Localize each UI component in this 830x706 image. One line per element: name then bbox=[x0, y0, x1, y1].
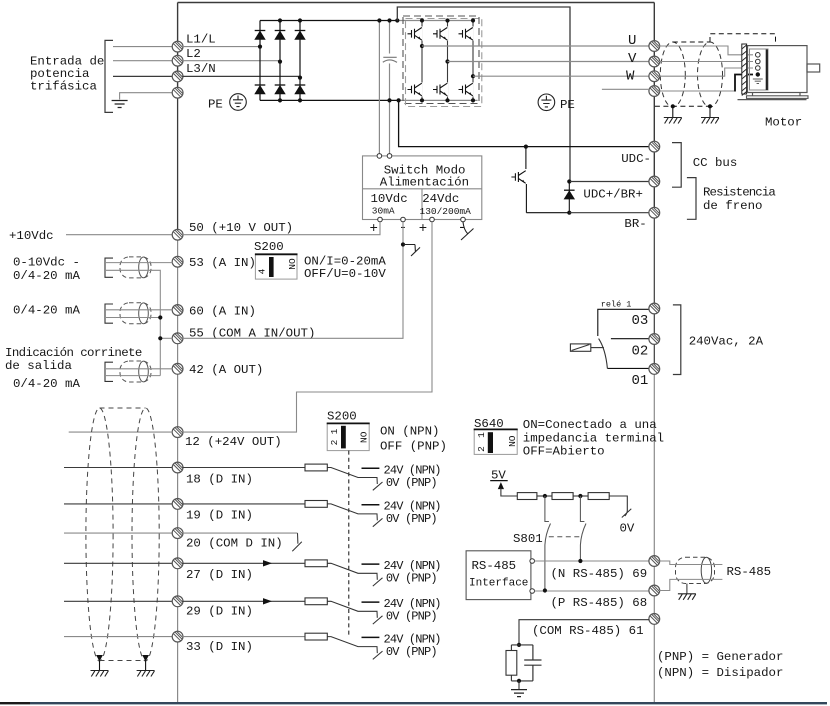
wire 55 common to bus bbox=[160, 337, 173, 339]
svg-text:0/4-20 mA: 0/4-20 mA bbox=[13, 269, 80, 283]
wire analog 60 signal bbox=[106, 309, 173, 311]
bottom window border bbox=[0, 702, 30, 704]
svg-text:(P RS-485) 68: (P RS-485) 68 bbox=[551, 596, 648, 610]
protective earth symbol output bbox=[538, 94, 555, 111]
pin 10Vdc minus bbox=[401, 217, 406, 222]
svg-text:S801: S801 bbox=[513, 532, 543, 546]
resistor termination R2 bbox=[552, 493, 573, 500]
svg-text:12 (+24V OUT): 12 (+24V OUT) bbox=[185, 435, 282, 449]
svg-text:+: + bbox=[419, 221, 427, 237]
svg-text:relé 1: relé 1 bbox=[601, 299, 632, 309]
wire DC+ bus top bbox=[260, 20, 397, 22]
node BR- junction bbox=[567, 211, 571, 215]
transistor inverter IGBT bottom 3 bbox=[461, 83, 474, 97]
svg-text:UDC-: UDC- bbox=[621, 152, 651, 166]
wire N RS-485 to 69 bbox=[535, 560, 650, 562]
node RC bottom bbox=[517, 679, 521, 683]
terminal 02 bbox=[649, 334, 660, 345]
svg-text:0V (PNP): 0V (PNP) bbox=[386, 645, 437, 659]
node inverter bottom junction 1 bbox=[420, 98, 424, 102]
wire relay NO 01 bbox=[607, 367, 649, 369]
resistor input 18 bbox=[305, 464, 327, 471]
node DC+ bus tap 1 bbox=[377, 18, 381, 22]
svg-text:01: 01 bbox=[632, 373, 649, 389]
terminal 20 bbox=[172, 528, 183, 539]
wire rectifier leg 3 bbox=[299, 21, 301, 101]
svg-text:CC bus: CC bus bbox=[693, 156, 738, 170]
node pulldown tap P bbox=[578, 494, 582, 498]
wire right bus mid (relay terminals) bbox=[653, 213, 655, 370]
wire PE output stub bbox=[602, 88, 650, 90]
wire L1 input bbox=[113, 46, 173, 48]
motor shaft bbox=[807, 64, 820, 72]
svg-text:53 (A IN): 53 (A IN) bbox=[189, 256, 256, 270]
node shield ground tap 2 bbox=[708, 104, 712, 108]
svg-text:Indicación corrinete: Indicación corrinete bbox=[5, 346, 142, 360]
chassis hook analog common bbox=[403, 245, 420, 257]
svg-text:130/200mA: 130/200mA bbox=[420, 206, 472, 217]
wire bundle 1 ground lead bbox=[99, 661, 101, 671]
motor terminal pin V bbox=[756, 59, 761, 64]
svg-text:PE: PE bbox=[208, 98, 223, 112]
ground motor cable shield 2 bbox=[701, 118, 719, 124]
svg-text:RS-485: RS-485 bbox=[727, 565, 772, 579]
wire phase V output bbox=[448, 61, 655, 63]
node inverter top junction 2 bbox=[445, 18, 449, 22]
wire dashed bundle top link bbox=[100, 407, 146, 409]
wire 18 external bbox=[64, 467, 173, 469]
resistor input 27 bbox=[305, 560, 327, 567]
wire DC+ feed to power supply bbox=[378, 21, 380, 156]
svg-text:30mA: 30mA bbox=[372, 206, 395, 217]
bracket relay rating bbox=[673, 305, 681, 375]
shield digital cable bundle 2 bbox=[132, 408, 159, 661]
wire DC- bus bottom (to inverter) bbox=[399, 99, 478, 101]
wire top enclosure border bbox=[178, 2, 655, 4]
wire dashed shield to motor frame bbox=[710, 34, 776, 46]
capacitor RC network bbox=[524, 645, 541, 681]
svg-text:NO: NO bbox=[507, 435, 518, 447]
svg-text:impedancia terminal: impedancia terminal bbox=[523, 431, 664, 445]
wire 5V to resistor chain bbox=[501, 488, 517, 496]
svg-text:(N RS-485) 69: (N RS-485) 69 bbox=[551, 567, 648, 581]
wire 61 to RC network bbox=[519, 620, 650, 643]
wire 19 external bbox=[64, 503, 173, 505]
wire shield ground lead 2 bbox=[709, 106, 711, 117]
wire 5V underline bbox=[490, 480, 508, 482]
pin 10Vdc plus bbox=[378, 217, 383, 222]
wire inverter leg 1 bbox=[421, 21, 423, 101]
wire 27 to input resistor bbox=[182, 562, 305, 564]
motor terminal pin U bbox=[756, 53, 761, 58]
svg-text:W: W bbox=[626, 69, 635, 85]
svg-text:0/4-20 mA: 0/4-20 mA bbox=[13, 377, 80, 391]
svg-text:NO: NO bbox=[359, 431, 370, 443]
inverter module dashed outline bbox=[403, 16, 479, 104]
svg-text:U: U bbox=[628, 33, 636, 49]
svg-text:V: V bbox=[628, 51, 637, 67]
ground RS-485 shield bbox=[678, 594, 696, 600]
slash chassis 19 bbox=[373, 518, 383, 526]
terminal 12 bbox=[172, 427, 183, 438]
svg-text:20 (COM D IN): 20 (COM D IN) bbox=[186, 537, 283, 551]
svg-text:(COM RS-485) 61: (COM RS-485) 61 bbox=[532, 624, 644, 638]
svg-text:50 (+10 V OUT): 50 (+10 V OUT) bbox=[189, 221, 293, 235]
wire inverter leg 2 bbox=[447, 21, 449, 101]
svg-text:L2: L2 bbox=[186, 47, 201, 61]
wire RS-485 line P through shield bbox=[659, 579, 722, 590]
pin supply input 1 bbox=[377, 154, 382, 159]
svg-text:0-10Vdc -: 0-10Vdc - bbox=[13, 255, 80, 269]
svg-text:03: 03 bbox=[632, 313, 649, 329]
wire 33 external bbox=[64, 636, 173, 638]
terminal 60 bbox=[172, 305, 183, 316]
wire analog common vertical bbox=[106, 270, 160, 375]
wire dashed S200 linkage bbox=[348, 451, 350, 637]
shield analog cable 53 bbox=[105, 257, 151, 278]
resistor input 29 bbox=[305, 598, 327, 605]
ground digital cable shield 1 bbox=[91, 671, 109, 677]
wire brake IGBT emitter bbox=[525, 184, 527, 213]
svg-text:60 (A IN): 60 (A IN) bbox=[189, 305, 256, 319]
slash chassis 18 bbox=[373, 482, 383, 490]
svg-text:2: 2 bbox=[329, 439, 340, 445]
capacitor DC bus bbox=[383, 57, 397, 62]
pin 24Vdc plus bbox=[430, 217, 435, 222]
switch S801 pole 2 bbox=[580, 496, 586, 561]
diode rectifier bottom D6 bbox=[295, 85, 306, 94]
wire 20 common bbox=[182, 532, 297, 534]
wire L3 input bbox=[113, 75, 173, 77]
svg-text:PE: PE bbox=[560, 98, 575, 112]
terminal PE input bbox=[172, 87, 183, 98]
chassis hook terminal 20 bbox=[292, 533, 302, 551]
transistor inverter IGBT bottom 1 bbox=[410, 83, 423, 97]
wire DC- bus bottom bbox=[260, 99, 399, 101]
wire PE input to earth bbox=[120, 93, 173, 100]
wire R bottom lead bbox=[510, 675, 512, 681]
wire DC+ to UDC+/BR+ terminal bbox=[397, 7, 570, 182]
svg-text:27 (D IN): 27 (D IN) bbox=[186, 568, 253, 582]
wire PE to motor riser bbox=[735, 75, 753, 92]
wire relay NC 02 bbox=[611, 338, 650, 340]
wire DC link cap upper lead bbox=[389, 21, 391, 54]
wire R2 to R3 bbox=[573, 495, 588, 497]
wire L2 to rectifier bbox=[182, 60, 280, 62]
terminal 19 bbox=[172, 499, 183, 510]
slash chassis 27 bbox=[373, 578, 383, 586]
wire brake diode branch bbox=[568, 182, 570, 213]
svg-text:S200: S200 bbox=[254, 240, 284, 254]
wire 29 external bbox=[64, 600, 173, 602]
node L1-rectifier junction bbox=[258, 45, 262, 49]
svg-text:42 (A OUT): 42 (A OUT) bbox=[189, 363, 263, 377]
shield RS-485 cable tube bbox=[676, 557, 715, 583]
wire analog 42 signal bbox=[106, 368, 173, 370]
svg-text:18 (D IN): 18 (D IN) bbox=[186, 473, 253, 487]
terminal 03 bbox=[649, 303, 660, 314]
wire dashed shield bottom link bbox=[655, 105, 710, 107]
node inverter top junction 1 bbox=[420, 18, 424, 22]
node L3-rectifier junction bbox=[298, 76, 302, 80]
node L2-rectifier junction bbox=[278, 60, 282, 64]
wire 12 external bbox=[69, 431, 173, 433]
svg-text:(PNP) = Generador: (PNP) = Generador bbox=[657, 650, 783, 664]
terminal 53 bbox=[172, 256, 183, 267]
terminal 01 bbox=[649, 364, 660, 375]
resistor input 19 bbox=[305, 501, 327, 508]
resistor termination R1 bbox=[517, 493, 537, 500]
terminal U bbox=[649, 41, 660, 52]
divider power supply columns bbox=[421, 189, 423, 220]
node brake IGBT collector tap bbox=[524, 145, 528, 149]
wire RS-485 line N through shield bbox=[659, 561, 722, 565]
terminal 29 bbox=[172, 596, 183, 607]
chassis hook 0V bbox=[622, 509, 632, 518]
arrow 5V supply bbox=[498, 482, 504, 489]
wire bundle 2 ground lead bbox=[145, 661, 147, 671]
switch S200 A53 DIP bbox=[255, 254, 298, 279]
wire 24V lead 19 bbox=[362, 504, 380, 506]
wire right bus upper (power terminals) bbox=[653, 3, 655, 214]
slash chassis 29 bbox=[373, 616, 383, 624]
node RC top bbox=[517, 643, 521, 647]
svg-text:33 (D IN): 33 (D IN) bbox=[186, 640, 253, 654]
wire 27 external bbox=[64, 562, 173, 564]
pin 24Vdc minus bbox=[461, 217, 466, 222]
wire 24V lead 27 bbox=[362, 563, 380, 565]
arrow direction 29 bbox=[263, 598, 272, 604]
ground RC network earth bbox=[511, 690, 527, 697]
svg-text:2: 2 bbox=[476, 446, 487, 452]
wire 19 to input resistor bbox=[182, 503, 305, 505]
diode rectifier top D3 bbox=[295, 31, 306, 40]
transistor inverter IGBT top 3 bbox=[461, 27, 474, 41]
diode brake freewheel bbox=[564, 190, 575, 199]
wire dashed shield top link bbox=[673, 41, 710, 43]
wire W to motor bbox=[659, 68, 753, 76]
wire phase W output bbox=[473, 75, 654, 77]
wire 18 to input resistor bbox=[182, 467, 305, 469]
protective earth symbol input bbox=[230, 94, 247, 111]
wire L1 to rectifier bbox=[182, 46, 260, 48]
svg-text:BR-: BR- bbox=[624, 217, 646, 231]
wire relay coil lead bbox=[591, 347, 604, 349]
node inverter bottom junction 3 bbox=[471, 98, 475, 102]
node UDC+ junction bbox=[567, 179, 571, 183]
svg-text:ON=Conectado a una: ON=Conectado a una bbox=[523, 418, 657, 432]
svg-text:Resistencia: Resistencia bbox=[703, 185, 776, 199]
svg-text:de freno: de freno bbox=[703, 199, 763, 213]
wire analog 42 return bbox=[106, 375, 160, 377]
shield motor cable ellipse 2 bbox=[698, 42, 723, 107]
svg-text:0/4-20 mA: 0/4-20 mA bbox=[13, 304, 80, 318]
node analog common junction 60 bbox=[158, 315, 162, 319]
wire phase U output bbox=[422, 45, 654, 47]
svg-text:OFF=Abierto: OFF=Abierto bbox=[523, 445, 605, 459]
svg-text:Motor: Motor bbox=[765, 116, 802, 130]
wire 20 external bbox=[64, 532, 173, 534]
terminal 69 bbox=[649, 556, 660, 567]
svg-text:24Vdc: 24Vdc bbox=[422, 192, 459, 206]
diode rectifier bottom D5 bbox=[275, 85, 286, 94]
svg-text:S200: S200 bbox=[327, 410, 357, 424]
node phase tap 2 bbox=[445, 59, 449, 63]
wire left bus mid bbox=[177, 97, 179, 235]
node inverter bottom junction 2 bbox=[445, 98, 449, 102]
svg-text:S640: S640 bbox=[474, 417, 504, 431]
node rectifier top junction 2 bbox=[278, 18, 282, 22]
transistor brake IGBT bbox=[511, 171, 525, 184]
wire dashed S801 linkage bbox=[549, 536, 580, 538]
terminal L3/N bbox=[172, 71, 183, 82]
wire U to motor bbox=[659, 46, 753, 55]
node rectifier top junction 3 bbox=[298, 18, 302, 22]
svg-text:0V (PNP): 0V (PNP) bbox=[386, 512, 437, 526]
wire 33 select arm bbox=[327, 637, 377, 654]
terminal 68 bbox=[649, 585, 660, 596]
pin interface P bbox=[530, 589, 535, 594]
wire left bus upper (mains terminals) bbox=[177, 3, 179, 98]
wire L3 to rectifier bbox=[182, 75, 300, 77]
terminal 55 bbox=[172, 333, 183, 344]
terminal 33 bbox=[172, 631, 183, 642]
wire R3 to 0V bbox=[609, 496, 627, 511]
shield digital cable bundle 1 bbox=[86, 408, 113, 661]
wire analog 53 signal bbox=[106, 262, 173, 264]
ground motor cable shield 1 bbox=[664, 118, 682, 124]
wire RC to earth bbox=[518, 681, 520, 690]
wire left control-terminal bus bbox=[177, 235, 179, 702]
pin supply input 2 bbox=[387, 154, 392, 159]
wire DC- to UDC- terminal bbox=[399, 100, 655, 146]
svg-text:29 (D IN): 29 (D IN) bbox=[186, 605, 253, 619]
node DC+ bus tap 3 bbox=[395, 18, 399, 22]
wire relay common 03 bbox=[598, 309, 650, 336]
wire 55 to supply minus bbox=[182, 222, 403, 338]
terminal 42 bbox=[172, 363, 183, 374]
slash chassis 33 bbox=[373, 651, 383, 659]
wire RC top link bbox=[511, 644, 533, 646]
terminal V bbox=[649, 56, 660, 67]
svg-text:02: 02 bbox=[632, 344, 649, 360]
bracket CC bus bbox=[672, 143, 681, 188]
node phase tap 3 bbox=[471, 74, 475, 78]
svg-text:0V (PNP): 0V (PNP) bbox=[386, 610, 437, 624]
svg-text:UDC+/BR+: UDC+/BR+ bbox=[583, 188, 643, 202]
arrow direction 27 bbox=[263, 560, 272, 566]
wire rectifier leg 2 bbox=[279, 21, 281, 101]
wire shield ground lead 1 bbox=[672, 106, 674, 117]
svg-text:de salida: de salida bbox=[5, 359, 72, 373]
svg-text:L3/N: L3/N bbox=[186, 62, 216, 76]
svg-text:Alimentación: Alimentación bbox=[380, 175, 469, 189]
wire analog 60 return bbox=[106, 317, 160, 319]
resistor RC network bbox=[506, 651, 517, 676]
resistor termination R3 bbox=[588, 493, 609, 500]
node S801 to 69 bbox=[578, 559, 582, 563]
wire brake emitter to BR- bbox=[526, 212, 569, 214]
svg-text:(NPN) = Disipador: (NPN) = Disipador bbox=[657, 666, 783, 680]
svg-text:10Vdc: 10Vdc bbox=[371, 192, 408, 206]
wire dashed bundle bottom link bbox=[100, 660, 146, 662]
motor body bbox=[748, 46, 808, 93]
ground digital cable shield 2 bbox=[137, 671, 155, 677]
transistor inverter IGBT bottom 2 bbox=[436, 83, 449, 97]
wire 24V lead 29 bbox=[362, 601, 380, 603]
node rectifier bottom junction 3 bbox=[298, 98, 302, 102]
wire BR- to terminal bbox=[569, 212, 654, 214]
wire 29 select arm bbox=[327, 601, 377, 618]
wire PE to motor bbox=[659, 90, 735, 92]
node DC- bus tap for UDC- bbox=[397, 98, 401, 102]
node DC+ bus tap 2 bbox=[387, 18, 391, 22]
diode rectifier top D2 bbox=[275, 31, 286, 40]
motor terminal pin PE bbox=[756, 72, 760, 76]
wire 24V lead 18 bbox=[362, 467, 380, 469]
wire DC link cap lower lead / supply feed bbox=[389, 64, 391, 156]
node shield ground tap 1 bbox=[671, 104, 675, 108]
wire DC+ bus top (to inverter) bbox=[397, 20, 473, 22]
ground motor internal earth bbox=[753, 79, 763, 83]
terminal UDC- bbox=[649, 141, 660, 152]
node S801 to 68 bbox=[543, 588, 547, 592]
transistor inverter IGBT top 2 bbox=[436, 27, 449, 41]
wire 24V lead 33 bbox=[362, 636, 380, 638]
wire L2 input bbox=[113, 60, 173, 62]
node rectifier bottom junction 2 bbox=[278, 98, 282, 102]
svg-text:ON (NPN): ON (NPN) bbox=[380, 425, 440, 439]
terminal 27 bbox=[172, 558, 183, 569]
svg-text:Interface: Interface bbox=[469, 578, 528, 590]
motor terminal box bbox=[750, 49, 769, 90]
chassis hook 24Vdc minus bbox=[461, 222, 474, 240]
resistor input 33 bbox=[305, 633, 327, 640]
svg-text:RS-485: RS-485 bbox=[472, 559, 517, 573]
diode rectifier top D1 bbox=[255, 31, 266, 40]
transistor inverter IGBT top 1 bbox=[410, 27, 423, 41]
shield motor cable ellipse 1 bbox=[660, 42, 685, 107]
relay contact arm bbox=[599, 339, 608, 369]
ground input PE earth symbol bbox=[112, 101, 128, 108]
node inverter top junction 3 bbox=[471, 18, 475, 22]
wire 27 select arm bbox=[327, 563, 377, 580]
terminal L2 bbox=[172, 55, 183, 66]
svg-text:+10Vdc: +10Vdc bbox=[9, 229, 54, 243]
svg-text:NO: NO bbox=[287, 258, 298, 270]
wire 19 select arm bbox=[327, 504, 377, 521]
wire right bus lower (serial terminals) bbox=[653, 370, 655, 702]
power supply box Switch Modo Alimentacion bbox=[363, 156, 482, 220]
wire 33 to input resistor bbox=[182, 636, 305, 638]
switch S200 NPN/PNP DIP bbox=[327, 423, 370, 450]
terminal L1/L bbox=[172, 41, 183, 52]
terminal PE output bbox=[649, 86, 660, 97]
svg-text:4: 4 bbox=[257, 268, 268, 274]
wire brake IGBT collector bbox=[525, 147, 527, 169]
svg-text:19 (D IN): 19 (D IN) bbox=[186, 509, 253, 523]
terminal 18 bbox=[172, 462, 183, 473]
terminal 50 bbox=[172, 229, 183, 240]
bracket brake resistor bbox=[687, 178, 696, 220]
wire RS-485 shield ground lead bbox=[686, 584, 688, 594]
svg-text:-: - bbox=[458, 220, 466, 236]
svg-text:trifásica: trifásica bbox=[30, 80, 97, 94]
motor feet and base bbox=[753, 93, 801, 96]
shield analog cable 60 bbox=[105, 303, 151, 324]
svg-text:0V (PNP): 0V (PNP) bbox=[386, 476, 437, 490]
wire rectifier leg 1 bbox=[259, 21, 261, 101]
